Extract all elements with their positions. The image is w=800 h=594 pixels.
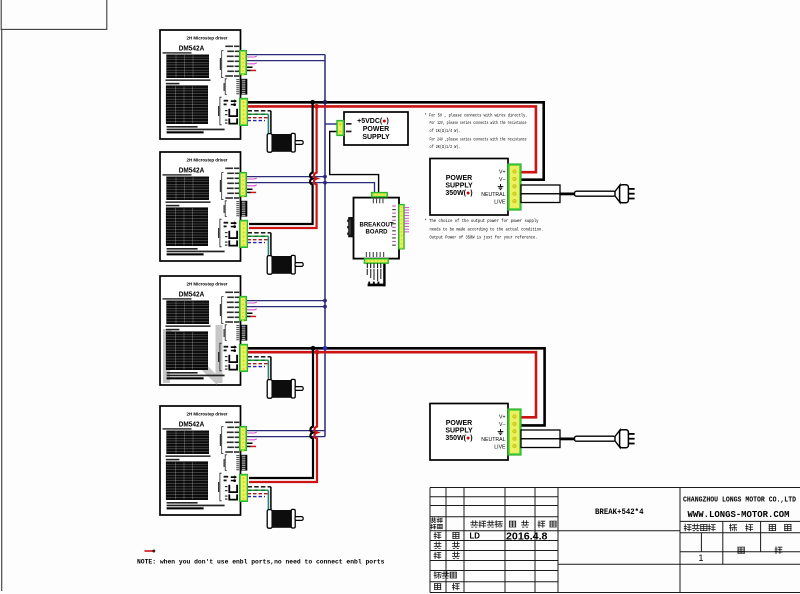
- driver #3: DIR- stub wire (pink): [247, 308, 257, 311]
- svg-text:NEUTRAL: NEUTRAL: [481, 192, 505, 198]
- power supply #2 AC plug: [615, 430, 635, 448]
- driver #3: power connector (6-pin, green): [240, 344, 248, 371]
- +5VDC supply pin label GND: [346, 131, 352, 133]
- svg-text:BOARD: BOARD: [366, 230, 389, 236]
- driver #2: motor phase wire B- (blue dashed): [248, 242, 266, 244]
- junction: +5V trunk over V- bus: [323, 100, 328, 105]
- wire: driver4 DIR+ (+5V) navy to +5V trunk: [247, 436, 326, 438]
- driver #3: microstep selecting table: [166, 331, 208, 370]
- driver #1: signal section bracket and pin labels: [222, 51, 224, 78]
- power supply #1 AC cable: [575, 191, 616, 196]
- +5VDC power supply: [337, 112, 408, 145]
- driver #4: signal connector (6-pin, green): [240, 426, 247, 451]
- driver #3: current setting table: [166, 301, 209, 325]
- svg-text:LD: LD: [470, 532, 481, 541]
- junction: +5V trunk / driver3 DIR+: [323, 305, 327, 309]
- breakout board: enable jumper bracket: [368, 264, 386, 287]
- driver #2: motor phase wire A+ (black dashed): [248, 232, 271, 234]
- svg-text:NOTE: when you don't use enbl: NOTE: when you don't use enbl ports,no n…: [137, 558, 385, 565]
- label (Chinese): 共: [738, 547, 745, 553]
- svg-text:V−: V−: [499, 422, 506, 428]
- driver #2: signal section bracket and pin labels: [222, 173, 224, 200]
- breakout board: top connector (green): [371, 192, 387, 197]
- driver #2: power section bracket, GND / +V labels, winding symbols: [220, 219, 222, 247]
- watermark: light gray logo behind driver 3 tables: [167, 325, 220, 383]
- wire: driver1 DIR+ (+5V) navy to +5V trunk: [247, 60, 326, 62]
- wire: driver1 PUL+ (+5V) navy to +5V trunk: [247, 54, 326, 56]
- svg-text:WWW.LONGS-MOTOR.COM: WWW.LONGS-MOTOR.COM: [688, 510, 790, 520]
- power supply #1: 350W AC supply: [430, 159, 521, 216]
- driver #1: DM542A 2H microstep driver: [160, 30, 247, 139]
- wire: driver2 PUL+ (+5V) navy to +5V trunk: [247, 176, 326, 178]
- power supply #1 earth ground symbol: [498, 184, 504, 190]
- junction: lower V- bus / driver4 branch: [311, 346, 316, 351]
- driver #4: power connector (6-pin, green): [240, 474, 248, 501]
- breakout board: right connector pin labels (magenta): [392, 206, 396, 246]
- driver #1: power section bracket, GND / +V labels, winding symbols: [220, 97, 222, 125]
- svg-text:2H Microstep driver: 2H Microstep driver: [187, 35, 228, 40]
- driver #3: ENBL- stub wire (black/red): [247, 316, 251, 318]
- junction: V- bus / driver2 branch: [310, 100, 315, 105]
- power supply #2: 350W AC supply: [430, 404, 521, 461]
- label (Chinese): 比 例: [769, 525, 791, 531]
- svg-text:DM542A: DM542A: [179, 419, 205, 428]
- label (Chinese): 批 准: [434, 583, 459, 590]
- svg-text:2H Microstep driver: 2H Microstep driver: [187, 281, 228, 286]
- wire: navy tap from +5V trunk to +5VDC power supply +5V pin: [325, 123, 337, 125]
- svg-text:2H Microstep driver: 2H Microstep driver: [187, 157, 228, 162]
- wire: black branch from V- bus down to driver2 GND (hops over navy wires): [249, 102, 313, 224]
- power supply #2 AC cable: [575, 436, 616, 441]
- driver #3: signal connector (6-pin, green): [240, 296, 247, 321]
- driver #3: motor phase wire A- (green): [248, 359, 269, 361]
- sheet frame: left drawing border line: [1, 29, 3, 591]
- svg-text:2H Microstep driver: 2H Microstep driver: [187, 411, 228, 416]
- svg-text:V−: V−: [499, 177, 506, 183]
- power supply #1 AC plug: [615, 185, 635, 203]
- driver #1: motor phase wire A+ (black dashed): [248, 110, 271, 112]
- svg-text:1: 1: [699, 553, 704, 563]
- breakout board: right connector (green, outputs): [399, 204, 405, 249]
- stepper motor M2: [267, 255, 303, 274]
- svg-text:SUPPLY: SUPPLY: [445, 182, 473, 189]
- driver #4: DM542A 2H microstep driver: [160, 406, 247, 515]
- wire: driver3 DIR+ (+5V) navy to +5V trunk: [247, 306, 326, 308]
- label (Chinese): 重 量: [730, 524, 753, 531]
- junction: V+ bus / driver2 branch: [314, 104, 319, 109]
- svg-text:* The choice of the output po: * The choice of the output power for pow…: [425, 218, 539, 224]
- +5VDC supply pin label +5V: [346, 123, 352, 125]
- driver #3: DIP switch block: [240, 325, 247, 341]
- label (Chinese): 张: [775, 547, 782, 554]
- label (Chinese): 等级标记: [684, 524, 715, 531]
- driver #3: ENBL+ stub wire (black): [247, 313, 253, 315]
- svg-text:of 1K(Ω)1/4 W).: of 1K(Ω)1/4 W).: [430, 128, 461, 134]
- wire: V- bus (black) driver3 GND to power supply #2 V-: [248, 348, 545, 425]
- label (Chinese): 更改单号: [471, 521, 503, 528]
- wire: +5V distribution trunk (navy vertical): [324, 55, 326, 437]
- svg-text:350W(●): 350W(●): [445, 435, 472, 442]
- driver #1: power connector (6-pin, green): [240, 98, 248, 125]
- note: power supply voltage note text: [425, 113, 528, 151]
- driver #1: ENBL+ stub wire (black): [247, 67, 253, 69]
- driver #2: DM542A 2H microstep driver: [160, 152, 247, 261]
- driver #1: DIR- stub wire (pink): [247, 62, 257, 65]
- wire: V+ bus (red) driver3 +V to power supply #2 V+: [248, 352, 537, 417]
- breakout board: output pin stub wires (magenta): [404, 207, 409, 232]
- driver #2: power connector (6-pin, green): [240, 220, 248, 247]
- junction: +5V trunk / driver2 PUL+: [323, 175, 327, 179]
- driver #2: current setting table: [166, 177, 209, 201]
- svg-text:2016.4.8: 2016.4.8: [506, 532, 548, 543]
- svg-text:LIVE: LIVE: [494, 444, 506, 450]
- breakout board: bottom wire labels (rotated text): [367, 269, 382, 281]
- svg-text:DM542A: DM542A: [179, 165, 205, 174]
- driver #1: motor phase wire B- (blue dashed): [248, 120, 266, 122]
- stepper motor M3: [267, 379, 303, 398]
- driver #2: signal connector (6-pin, green): [240, 172, 247, 197]
- driver #4: current setting table: [166, 431, 209, 455]
- svg-text:NEUTRAL: NEUTRAL: [481, 437, 505, 443]
- power supply #2 AC cord (neutral/live pair): [521, 430, 560, 448]
- driver #4: DIP switch block: [240, 455, 247, 471]
- title block grid lines: [430, 488, 800, 593]
- stepper motor M1: [267, 133, 303, 152]
- svg-text:DM542A: DM542A: [179, 289, 205, 298]
- driver #4: microstep selecting table: [166, 461, 208, 500]
- breakout board: left parallel-port connector (black): [347, 217, 354, 237]
- wire: driver2 DIR+ (+5V) navy, continues to breakout board top connector: [247, 183, 375, 193]
- driver #4: motor phase wire A- (green): [248, 489, 269, 491]
- wire: black GND from +5VDC power supply to breakout board top connector: [330, 132, 379, 193]
- svg-text:For 12V, please series connect: For 12V, please series connects with the…: [430, 120, 527, 126]
- driver #4: ENBL- stub wire (black/red): [247, 446, 251, 448]
- driver #3: power section bracket, GND / +V labels, winding symbols: [220, 343, 222, 371]
- breakout board: [354, 198, 400, 259]
- driver #3: DIP switch section: [225, 325, 227, 341]
- driver #2: PUL- stub wire (pink): [247, 177, 257, 180]
- label (Chinese): 设 计: [434, 532, 459, 539]
- driver #2: motor phase wire B+ (dark red dashed): [248, 239, 268, 241]
- power supply #1 terminal labels V+ V- GND NEUTRAL LIVE: [481, 170, 506, 206]
- svg-text:SUPPLY: SUPPLY: [362, 134, 390, 141]
- power supply #2 terminal connector (5-pin, green): [508, 409, 521, 455]
- driver #4: ENBL+ stub wire (black): [247, 443, 253, 445]
- driver #3: DM542A 2H microstep driver: [160, 276, 247, 385]
- svg-text:BREAK+542*4: BREAK+542*4: [595, 508, 644, 517]
- wire: black branch from lower V- bus down to driver4 GND (hops over navy wires): [249, 348, 313, 478]
- driver #2: DIP switch section: [225, 201, 227, 217]
- driver #3: signal section bracket and pin labels: [222, 297, 224, 324]
- driver #3: motor phase wire B- (blue dashed): [248, 366, 266, 368]
- driver #1: DIP switch section: [225, 79, 227, 95]
- driver #2: DIP switch block: [240, 201, 247, 217]
- svg-text:V+: V+: [499, 170, 506, 176]
- driver #2: ENBL- stub wire (black/red): [247, 192, 251, 194]
- driver #1: PUL- stub wire (pink): [247, 55, 257, 58]
- driver #1: current setting table: [166, 55, 209, 79]
- svg-text:POWER: POWER: [446, 175, 472, 182]
- svg-text:BREAKOUT: BREAKOUT: [360, 223, 394, 229]
- driver #1: signal connector (6-pin, green): [240, 50, 247, 75]
- note: output power note text: [425, 218, 544, 241]
- wire: driver4 PUL+ (+5V) navy to +5V trunk: [247, 430, 326, 432]
- wire: V- bus (black) driver1 GND to power supply #1 V-: [248, 102, 544, 179]
- label (Chinese): 更改标记: [431, 518, 442, 523]
- svg-text:V+: V+: [499, 415, 506, 421]
- label (Chinese): 签 名: [509, 521, 528, 528]
- svg-text:350W(●): 350W(●): [445, 190, 472, 197]
- svg-text:For 24V ,please series connect: For 24V ,please series connects with the…: [430, 137, 527, 143]
- driver #2: ENBL+ stub wire (black): [247, 189, 253, 191]
- power supply #2 earth ground symbol: [498, 429, 504, 435]
- driver #1: DIP switch block: [240, 79, 247, 95]
- svg-text:DM542A: DM542A: [179, 43, 205, 52]
- junction: +5V trunk over lower V- bus: [323, 346, 328, 351]
- driver #1: motor phase wire A- (green): [248, 113, 269, 115]
- breakout board: bottom connector (green): [364, 259, 388, 264]
- driver #3: motor phase wire B+ (dark red dashed): [248, 363, 268, 365]
- breakout board: bottom connector pin labels: [366, 252, 384, 257]
- label (Chinese): 标准化: [434, 572, 456, 579]
- driver #2: motor phase wire A- (green): [248, 235, 269, 237]
- wire: driver3 PUL+ (+5V) navy to +5V trunk: [247, 300, 326, 302]
- power supply #2 terminal labels V+ V- GND NEUTRAL LIVE: [481, 415, 506, 451]
- svg-text:of 2K(Ω)1/2 W).: of 2K(Ω)1/2 W).: [430, 144, 461, 150]
- driver #4: DIR- stub wire (pink): [247, 438, 257, 441]
- driver #4: DIP switch section: [225, 455, 227, 471]
- label (Chinese): 更改标记 row2: [431, 524, 442, 529]
- svg-text:SUPPLY: SUPPLY: [445, 427, 473, 434]
- junction: +5V trunk / driver2 DIR+: [323, 181, 327, 185]
- wire: red branch from V+ bus down to driver2 +V (hops over navy wires): [249, 106, 317, 228]
- driver #1: motor phase wire B+ (dark red dashed): [248, 117, 268, 119]
- junction: lower V+ bus / driver4 branch: [315, 350, 320, 355]
- svg-text:Output Power of 350W is just f: Output Power of 350W is just for your re…: [430, 235, 538, 241]
- label (Chinese): 日 期: [538, 521, 556, 528]
- junction: +5V trunk / driver3 PUL+: [323, 299, 327, 303]
- driver #1: ENBL- stub wire (black/red): [247, 70, 251, 72]
- svg-text:needs to be made according to: needs to be made according to the actual…: [430, 226, 544, 232]
- driver #2: microstep selecting table: [166, 207, 208, 246]
- driver #3: PUL- stub wire (pink): [247, 301, 257, 304]
- driver #2: DIR- stub wire (pink): [247, 184, 257, 187]
- svg-text:POWER: POWER: [363, 126, 389, 133]
- driver #3: motor phase wire A+ (black dashed): [248, 356, 271, 358]
- driver #1: microstep selecting table: [166, 85, 208, 124]
- breakout board: bottom wires to enable jumper: [367, 263, 381, 268]
- stepper motor M4: [267, 509, 303, 528]
- breakout board: top connector pin labels: [373, 199, 384, 204]
- +5VDC supply connector (2-pin, green): [337, 120, 344, 135]
- note: red tick mark above NOTE: [145, 550, 154, 552]
- sheet frame: top-left corner box of drawing border: [1, 0, 107, 29]
- power supply #1 AC cord (neutral/live pair): [521, 185, 560, 203]
- svg-text:POWER: POWER: [446, 420, 472, 427]
- driver #4: PUL- stub wire (pink): [247, 431, 257, 434]
- driver #4: power section bracket, GND / +V labels, winding symbols: [220, 473, 222, 501]
- svg-text:* For 5V , please connects wit: * For 5V , please connects with wires di…: [425, 113, 528, 119]
- driver #4: motor phase wire B+ (dark red dashed): [248, 493, 268, 495]
- label (Chinese): 工 艺: [434, 552, 459, 559]
- wire: V+ bus (red) driver1 +V to power supply #1 V+: [248, 106, 536, 172]
- driver #4: signal section bracket and pin labels: [222, 427, 224, 454]
- svg-text:CHANGZHOU LONGS MOTOR CO.,LTD: CHANGZHOU LONGS MOTOR CO.,LTD: [683, 496, 796, 504]
- svg-text:+5VDC(●): +5VDC(●): [357, 118, 389, 125]
- svg-text:LIVE: LIVE: [494, 199, 506, 205]
- driver #4: motor phase wire B- (blue dashed): [248, 496, 266, 498]
- wire: red branch from lower V+ bus down to driver4 +V (hops over navy wires): [249, 352, 317, 482]
- driver #4: motor phase wire A+ (black dashed): [248, 486, 271, 488]
- power supply #1 terminal connector (5-pin, green): [508, 164, 521, 210]
- label (Chinese): 审 核: [434, 542, 459, 549]
